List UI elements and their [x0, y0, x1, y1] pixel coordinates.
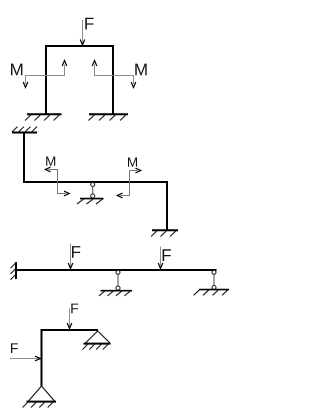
frame 1 top beam — [45, 45, 114, 47]
pendulum link support right (beam 3) — [194, 270, 230, 295]
frame 1 left column — [45, 45, 47, 115]
label M left (frame 1) — [11, 64, 22, 76]
force F2 on beam 3 — [158, 247, 163, 269]
label F frame 1 — [85, 18, 93, 30]
label M left (frame 2) — [46, 157, 55, 166]
moment M couple left (frame 1) — [23, 61, 67, 88]
beam 3 — [15, 269, 217, 271]
frame 2 left column — [23, 132, 25, 184]
frame 1 right column — [112, 45, 114, 115]
label F1 beam 3 — [72, 246, 80, 258]
frame 2 beam — [23, 181, 168, 183]
force F1 on beam 3 — [68, 244, 73, 269]
force F top (frame 4) — [67, 309, 72, 329]
frame 4 top beam — [41, 329, 99, 331]
moment M couple right (frame 2) — [117, 168, 140, 198]
label M right (frame 1) — [135, 64, 146, 76]
frame 2 right fixed support — [151, 230, 178, 236]
pin support bottom (frame 4) — [23, 386, 57, 408]
label F top (frame 4) — [71, 304, 78, 314]
label M right (frame 2) — [128, 158, 137, 167]
frame 1 right fixed support — [89, 114, 129, 120]
pendulum link support middle (beam 3) — [99, 270, 132, 296]
pendulum link support middle (frame 2) — [77, 183, 104, 205]
beam 3 left wall support — [11, 262, 17, 280]
moment M couple right (frame 1) — [92, 61, 136, 88]
frame 4 column — [41, 329, 43, 386]
label F2 beam 3 — [163, 249, 171, 261]
label F left (frame 4) — [11, 343, 18, 353]
force F left horizontal (frame 4) — [10, 356, 41, 361]
moment M couple left (frame 2) — [45, 167, 69, 196]
pin support right (frame 4) — [83, 331, 111, 350]
force F arrow on frame 1 — [80, 20, 85, 45]
frame 1 left fixed support — [25, 114, 62, 120]
frame 2 top wall fixed support — [12, 127, 37, 133]
frame 2 right column — [166, 181, 168, 231]
